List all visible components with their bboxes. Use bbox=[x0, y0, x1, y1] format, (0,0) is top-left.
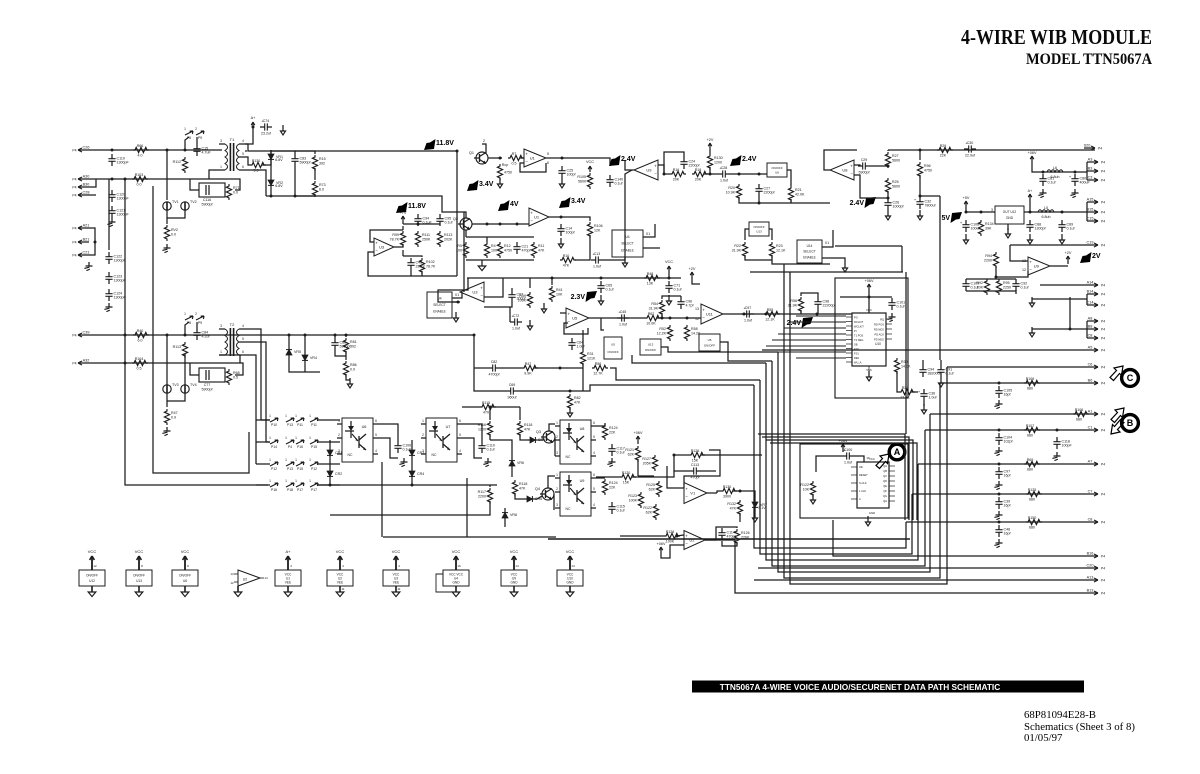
wire R118 to CR5 bbox=[520, 434, 526, 440]
resistor R56 bbox=[788, 297, 804, 313]
power rail +7V bbox=[400, 211, 407, 224]
svg-text:R111: R111 bbox=[422, 233, 430, 237]
wire to R115 bbox=[462, 406, 480, 408]
junction bbox=[1042, 171, 1045, 174]
svg-text:1.0uf: 1.0uf bbox=[929, 396, 937, 400]
ground under R86 bbox=[347, 378, 352, 388]
junction bbox=[965, 211, 968, 214]
svg-text:P4: P4 bbox=[72, 178, 76, 182]
wire fb C114 bbox=[716, 527, 722, 540]
wire C100 to IC bbox=[854, 456, 864, 462]
diode CR5 bbox=[526, 437, 545, 443]
wire net A1 bbox=[930, 413, 1087, 415]
wire U7 out bottom bbox=[462, 438, 482, 458]
resistor R11 bbox=[531, 242, 545, 258]
svg-text:A15: A15 bbox=[1087, 198, 1094, 202]
svg-text:A: A bbox=[859, 497, 861, 501]
wire mid VCC rail bbox=[467, 277, 681, 279]
svg-text:R20: R20 bbox=[728, 186, 735, 190]
svg-text:C77: C77 bbox=[204, 383, 211, 387]
svg-text:10K: 10K bbox=[803, 487, 810, 491]
svg-text:11.8V: 11.8V bbox=[408, 203, 426, 210]
svg-text:P4: P4 bbox=[1101, 337, 1105, 341]
resistor R20 bbox=[726, 184, 742, 200]
junction bbox=[1056, 429, 1059, 432]
svg-text:22200pf: 22200pf bbox=[823, 304, 836, 308]
wire bus net 6 bbox=[784, 264, 940, 578]
svg-text:C30: C30 bbox=[967, 141, 974, 145]
svg-text:Q4: Q4 bbox=[535, 487, 540, 491]
junction bbox=[489, 406, 492, 409]
svg-text:2: 2 bbox=[422, 433, 424, 437]
power rail +2V bbox=[1065, 251, 1072, 264]
wire U5 out bbox=[589, 317, 645, 319]
wire A32 input bbox=[89, 362, 240, 364]
wire long net B13 bbox=[735, 540, 1087, 593]
resistor R86 bbox=[343, 361, 356, 377]
svg-text:−: − bbox=[702, 315, 705, 320]
wire net C8 bbox=[906, 521, 1087, 523]
diode CR3 bbox=[409, 446, 424, 460]
svg-text:1.0uf: 1.0uf bbox=[844, 461, 852, 465]
wire C67 top bbox=[511, 288, 513, 290]
wire bbox=[486, 237, 488, 242]
ground under U14 bbox=[842, 262, 847, 272]
wire R118b to CR6 bbox=[515, 493, 523, 499]
wire R102 down bbox=[421, 271, 423, 276]
ground U7 out bbox=[483, 458, 491, 467]
transistor Q1 bbox=[469, 151, 488, 164]
svg-text:R62: R62 bbox=[648, 312, 655, 316]
svg-text:C26: C26 bbox=[83, 146, 90, 150]
svg-text:A21: A21 bbox=[83, 224, 90, 228]
junction bbox=[559, 367, 562, 370]
svg-text:10K: 10K bbox=[556, 292, 563, 296]
wire feeder net 3 bbox=[632, 355, 766, 363]
capacitor C24 bbox=[680, 157, 699, 169]
capacitor C72 bbox=[510, 313, 522, 330]
surge arrestor TV1 bbox=[163, 200, 179, 210]
capacitor C108 bbox=[960, 220, 982, 232]
svg-text:VEE: VEE bbox=[285, 580, 291, 584]
connector bracket A15 B15 C15 bbox=[1086, 202, 1088, 221]
resistor R82 bbox=[567, 394, 581, 410]
svg-text:R121: R121 bbox=[625, 448, 634, 452]
svg-text:−: − bbox=[654, 171, 657, 176]
svg-text:2.3V: 2.3V bbox=[571, 294, 586, 301]
resistor R124 bbox=[602, 479, 617, 495]
svg-text:7800uf: 7800uf bbox=[925, 204, 936, 208]
wire R121 down bbox=[637, 459, 639, 476]
jumper P17 bbox=[295, 479, 304, 492]
svg-text:100K: 100K bbox=[629, 498, 638, 502]
svg-text:100pF: 100pF bbox=[1062, 444, 1073, 448]
svg-text:U6: U6 bbox=[362, 425, 367, 429]
resistor R10 bbox=[560, 254, 576, 268]
svg-text:3: 3 bbox=[991, 208, 993, 212]
svg-text:2: 2 bbox=[556, 435, 558, 439]
wire long rail y515 bbox=[330, 501, 490, 515]
capacitor C91 bbox=[937, 365, 953, 377]
voltage flag 11.8V top bbox=[424, 139, 454, 150]
svg-text:4750: 4750 bbox=[504, 248, 512, 252]
wire jumper row y485 bbox=[256, 484, 270, 486]
svg-text:PO: PO bbox=[854, 315, 858, 319]
wire to jumper P8 b bbox=[185, 322, 189, 335]
svg-text:3.4V: 3.4V bbox=[479, 181, 494, 188]
label 13 bbox=[1022, 259, 1026, 263]
ground at C74 bbox=[280, 125, 285, 135]
svg-text:1: 1 bbox=[295, 436, 297, 440]
svg-text:6.0: 6.0 bbox=[319, 187, 324, 191]
svg-text:A+: A+ bbox=[251, 116, 257, 120]
junction bbox=[743, 313, 746, 316]
svg-text:100K: 100K bbox=[518, 298, 527, 302]
node A bbox=[889, 444, 905, 460]
svg-text:R52: R52 bbox=[659, 327, 666, 331]
wire T2 sec top down bus bbox=[245, 329, 261, 420]
wire long net C20 bbox=[758, 567, 1087, 569]
svg-text:P4: P4 bbox=[1101, 293, 1105, 297]
wire R94 down bbox=[995, 266, 997, 277]
junction bbox=[94, 241, 97, 244]
IC U12 power stub bbox=[79, 549, 105, 597]
svg-text:X1: X1 bbox=[825, 241, 829, 245]
svg-text:QB: QB bbox=[883, 469, 887, 473]
svg-text:C19: C19 bbox=[1087, 241, 1094, 245]
ground bbox=[162, 427, 170, 436]
resistor R23 bbox=[769, 242, 786, 258]
svg-text:C14: C14 bbox=[1087, 301, 1094, 305]
wire net y272 bbox=[750, 271, 903, 273]
svg-text:CR1: CR1 bbox=[335, 451, 342, 455]
svg-text:ON/OFF: ON/OFF bbox=[645, 348, 656, 352]
wire A30 input bbox=[89, 178, 209, 180]
svg-text:P4: P4 bbox=[1101, 349, 1105, 353]
resistor R25 bbox=[885, 178, 900, 194]
svg-text:1300pF: 1300pF bbox=[117, 197, 130, 201]
svg-text:L5: L5 bbox=[1044, 206, 1048, 210]
capacitor C30 bbox=[964, 140, 976, 157]
jumper P12 bbox=[309, 458, 318, 471]
capacitor C43 bbox=[407, 258, 424, 270]
pointer arrow B2 bbox=[1111, 420, 1124, 435]
ground under C118 bbox=[1052, 452, 1060, 461]
wire jumper row4 extension bbox=[318, 484, 497, 486]
svg-text:13K: 13K bbox=[647, 281, 654, 285]
label 3 bbox=[991, 208, 993, 212]
svg-text:31.9K: 31.9K bbox=[649, 306, 659, 310]
svg-text:C20: C20 bbox=[1087, 564, 1094, 568]
svg-text:121K: 121K bbox=[587, 356, 596, 360]
svg-text:ON/OFF: ON/OFF bbox=[704, 344, 715, 348]
diode CR2 bbox=[327, 467, 342, 481]
wire VR8 down bbox=[504, 522, 506, 527]
node C bbox=[1122, 370, 1139, 387]
junction bbox=[668, 277, 671, 280]
svg-text:R126: R126 bbox=[741, 531, 750, 535]
wire jumper P9 to C15 bbox=[196, 137, 198, 144]
power rail +06V bbox=[634, 431, 643, 444]
wire bank gnd bbox=[481, 260, 483, 262]
wire to R130b bbox=[717, 491, 721, 493]
svg-text:ON/OFF: ON/OFF bbox=[771, 166, 782, 170]
svg-text:U3: U3 bbox=[472, 290, 478, 295]
svg-text:B30: B30 bbox=[83, 183, 90, 187]
svg-text:RQ: RQ bbox=[880, 317, 884, 321]
connector A5 bbox=[1087, 346, 1105, 353]
wire to right bbox=[791, 202, 830, 204]
svg-text:PI: PI bbox=[854, 329, 857, 333]
svg-text:ON/OFF: ON/OFF bbox=[607, 350, 618, 354]
wire C29 to R27 bbox=[870, 165, 888, 166]
connector B3 bbox=[1087, 167, 1105, 174]
resistor R102 bbox=[419, 258, 436, 274]
svg-text:1.0uf: 1.0uf bbox=[593, 265, 601, 269]
wire U5 out down bbox=[601, 318, 604, 330]
wire U4b pin X1 bbox=[452, 292, 462, 298]
svg-text:R126: R126 bbox=[691, 449, 700, 453]
svg-text:P16: P16 bbox=[271, 488, 277, 492]
svg-text:62K: 62K bbox=[628, 452, 635, 456]
wire +06V to U2 bbox=[661, 545, 684, 558]
wire C100 left loop bbox=[816, 456, 842, 472]
label 12 bbox=[695, 317, 699, 321]
wire Q2 emitter down bbox=[465, 230, 467, 237]
wire QA bundle above shift register bbox=[758, 434, 905, 520]
ground bbox=[162, 244, 170, 253]
resistor R117 bbox=[478, 488, 493, 504]
wire bbox=[709, 167, 711, 174]
diode CR1 bbox=[327, 446, 342, 460]
svg-text:Q2: Q2 bbox=[453, 217, 458, 221]
svg-text:R116: R116 bbox=[478, 423, 486, 427]
svg-text:0.0: 0.0 bbox=[233, 190, 238, 194]
voltage flag 2.3V bbox=[571, 291, 597, 302]
svg-text:R56: R56 bbox=[790, 299, 797, 303]
svg-text:100pf: 100pf bbox=[567, 173, 576, 177]
resistor R52 bbox=[657, 325, 673, 341]
op-amp U2 power stub bbox=[230, 570, 268, 597]
svg-text:47K: 47K bbox=[524, 427, 531, 431]
wire TV3 down bbox=[166, 393, 168, 407]
wire T2 sec bot down bus bbox=[245, 355, 256, 464]
resistor R109 bbox=[1024, 377, 1040, 391]
svg-text:Rcp: Rcp bbox=[502, 163, 508, 167]
junction bbox=[569, 390, 572, 393]
wire R106 down bbox=[575, 235, 590, 260]
wire long net B16 bbox=[833, 520, 1087, 556]
resistor R105 bbox=[577, 173, 592, 189]
label 13 bbox=[695, 307, 699, 311]
wire U1b out bbox=[549, 216, 561, 218]
label 6.8V bbox=[275, 158, 283, 162]
svg-text:1: 1 bbox=[309, 479, 311, 483]
svg-text:R58: R58 bbox=[691, 327, 698, 331]
svg-text:15K: 15K bbox=[692, 458, 699, 462]
svg-text:5: 5 bbox=[375, 433, 377, 437]
svg-text:1: 1 bbox=[338, 419, 340, 423]
svg-text:U9: U9 bbox=[1034, 264, 1040, 269]
resistor R123 bbox=[628, 492, 643, 508]
svg-text:R12: R12 bbox=[504, 244, 511, 248]
svg-text:0.5: 0.5 bbox=[233, 375, 238, 379]
svg-text:L CLK: L CLK bbox=[859, 489, 866, 493]
connector B30 bbox=[72, 183, 89, 190]
svg-text:5900pf: 5900pf bbox=[340, 345, 351, 349]
svg-text:R95: R95 bbox=[1003, 281, 1010, 285]
capacitor C96 bbox=[677, 297, 693, 309]
resistor R134 bbox=[978, 220, 993, 236]
svg-text:12: 12 bbox=[230, 581, 234, 585]
svg-text:ON/OFF: ON/OFF bbox=[86, 574, 98, 578]
power rail +06V bbox=[1028, 151, 1037, 164]
svg-text:P17: P17 bbox=[311, 488, 317, 492]
wire bus net 3 bbox=[766, 363, 918, 560]
jumper P14 bbox=[269, 436, 278, 449]
wire net C6 bbox=[947, 366, 1087, 368]
capacitor C80 bbox=[1069, 174, 1091, 186]
capacitor C89 bbox=[1058, 220, 1074, 232]
svg-text:R115: R115 bbox=[482, 401, 490, 405]
svg-text:+: + bbox=[525, 152, 528, 157]
connector C8 bbox=[1087, 334, 1105, 341]
jumper P8 bbox=[184, 127, 193, 140]
wire bbox=[402, 250, 404, 256]
svg-text:P4: P4 bbox=[1101, 201, 1105, 205]
wire vertical U7 out down bbox=[466, 478, 468, 537]
ground under bank bbox=[478, 262, 486, 271]
wire R27 to top rail bbox=[888, 149, 920, 151]
svg-text:QD: QD bbox=[883, 479, 887, 483]
wire R22 R23 join bbox=[745, 255, 772, 260]
svg-text:100: 100 bbox=[456, 248, 462, 252]
ground under C88 bbox=[1027, 234, 1032, 244]
svg-text:4: 4 bbox=[459, 449, 461, 453]
svg-text:P13: P13 bbox=[287, 467, 293, 471]
svg-text:22K: 22K bbox=[609, 430, 616, 434]
wire U3mid -in bbox=[484, 302, 512, 307]
svg-text:ON/OFF: ON/OFF bbox=[133, 574, 145, 578]
diode VR7 bbox=[752, 498, 767, 512]
wire secondary net step bbox=[295, 196, 464, 292]
power rail VCC at R109 bbox=[586, 160, 594, 172]
svg-text:400uF: 400uF bbox=[1080, 181, 1091, 185]
label X1 bbox=[455, 293, 459, 297]
svg-text:3: 3 bbox=[220, 139, 222, 143]
svg-text:14: 14 bbox=[571, 564, 575, 568]
wire Q3 emitter bbox=[554, 437, 556, 456]
svg-text:202K: 202K bbox=[444, 237, 453, 241]
resistor R62 bbox=[645, 312, 661, 326]
wire jumper row y442 bbox=[256, 441, 270, 443]
svg-text:78.7K: 78.7K bbox=[426, 264, 436, 268]
wire U10 pin feed 2 bbox=[790, 321, 846, 323]
svg-text:VCC: VCC bbox=[392, 549, 401, 554]
svg-text:TV1: TV1 bbox=[172, 200, 179, 204]
junction bbox=[663, 173, 666, 176]
wire R137 to V1 bbox=[667, 466, 684, 488]
connector A3 bbox=[1087, 158, 1105, 165]
wire bbox=[661, 313, 663, 318]
svg-text:P11: P11 bbox=[297, 423, 303, 427]
resistor R126 bbox=[734, 529, 750, 545]
svg-text:6: 6 bbox=[459, 419, 461, 423]
resistor R99 bbox=[390, 231, 406, 247]
svg-text:+5V: +5V bbox=[963, 196, 970, 200]
svg-text:C39: C39 bbox=[83, 331, 90, 335]
svg-text:1: 1 bbox=[295, 458, 297, 462]
svg-text:4.7uF: 4.7uF bbox=[202, 151, 212, 155]
junction bbox=[738, 173, 741, 176]
wire rail to jumper row bbox=[125, 179, 268, 485]
svg-text:0.1uf: 0.1uf bbox=[897, 305, 905, 309]
svg-text:P4: P4 bbox=[1101, 320, 1105, 324]
junction bbox=[868, 296, 871, 299]
resistor RV2 bbox=[164, 225, 178, 241]
svg-text:U5: U5 bbox=[708, 338, 712, 342]
svg-text:R150: R150 bbox=[1028, 516, 1037, 520]
svg-text:VCC: VCC bbox=[586, 160, 594, 164]
wire R30 to R24 bbox=[897, 371, 899, 392]
junction bbox=[998, 382, 1001, 385]
svg-text:B21: B21 bbox=[83, 238, 90, 242]
svg-text:392: 392 bbox=[319, 161, 325, 165]
wire bottom bank bottom bbox=[966, 291, 1016, 294]
svg-text:P4: P4 bbox=[72, 149, 76, 153]
op-amp U11 bbox=[701, 304, 723, 324]
wire bus net 2 bbox=[760, 380, 912, 554]
wire bank bottom bbox=[466, 259, 534, 261]
IC U5 ON/OFF bbox=[604, 337, 622, 359]
svg-text:R29: R29 bbox=[940, 144, 947, 148]
ground under C97 bbox=[994, 481, 1002, 490]
resistor R68 bbox=[226, 369, 239, 385]
svg-text:U8: U8 bbox=[580, 427, 585, 431]
svg-text:C29: C29 bbox=[861, 158, 868, 162]
svg-text:C13: C13 bbox=[594, 252, 601, 256]
wire U9 out up bbox=[625, 160, 634, 170]
svg-text:5: 5 bbox=[547, 152, 549, 156]
svg-text:R92: R92 bbox=[976, 281, 983, 285]
wire U5 in bbox=[560, 312, 566, 314]
svg-text:U11: U11 bbox=[706, 312, 714, 317]
ground stub a8 bbox=[1029, 327, 1034, 337]
svg-text:680: 680 bbox=[1029, 497, 1035, 501]
junction bbox=[294, 195, 297, 198]
resistor R103 bbox=[132, 173, 148, 187]
op-amp U2 bbox=[684, 531, 705, 550]
capacitor C48 bbox=[995, 525, 1010, 537]
svg-text:ENABLE: ENABLE bbox=[803, 255, 816, 259]
optocoupler U6 bbox=[337, 418, 378, 462]
svg-text:0.0: 0.0 bbox=[137, 182, 142, 186]
svg-text:B15: B15 bbox=[1087, 208, 1094, 212]
capacitor C29 bbox=[858, 158, 870, 175]
svg-text:4: 4 bbox=[375, 449, 377, 453]
svg-text:P4: P4 bbox=[1101, 161, 1105, 165]
svg-text:+06V: +06V bbox=[865, 279, 874, 283]
svg-text:U5: U5 bbox=[611, 343, 615, 347]
wire bbox=[709, 151, 711, 154]
voltage flag 4V bbox=[498, 200, 519, 211]
svg-text:R118: R118 bbox=[524, 423, 532, 427]
svg-text:12.7K: 12.7K bbox=[593, 371, 603, 375]
svg-text:R47: R47 bbox=[171, 411, 178, 415]
svg-text:P16: P16 bbox=[297, 445, 303, 449]
resistor R56 bbox=[592, 362, 608, 376]
capacitor C45 bbox=[617, 309, 629, 326]
